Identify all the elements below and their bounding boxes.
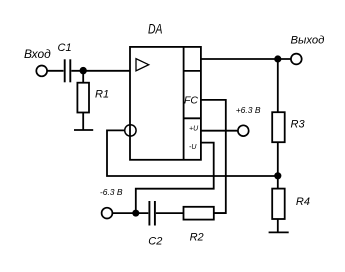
svg-text:-U: -U — [189, 144, 197, 151]
svg-text:-6.3 В: -6.3 В — [100, 187, 123, 197]
svg-text:DA: DA — [148, 21, 163, 37]
wire R2 to FC riser — [214, 212, 226, 214]
resistor R4 — [272, 189, 310, 219]
svg-text:Выход: Выход — [291, 35, 325, 47]
wire R1 to ground — [82, 113, 84, 131]
wire junction to R1 — [82, 71, 84, 83]
capacitor C1 — [58, 42, 72, 82]
op-amp amplifier triangle symbol — [136, 59, 149, 71]
wire -6.3V terminal to C2 — [112, 212, 148, 214]
resistor R1 — [77, 83, 109, 113]
terminal +6.3 В — [236, 105, 261, 136]
svg-text:R2: R2 — [190, 232, 204, 244]
op-amp DA body — [130, 47, 201, 160]
capacitor C2 — [148, 201, 162, 248]
wire feedback node A to inverting input — [107, 130, 278, 176]
wire input terminal to C1 — [47, 70, 63, 72]
svg-text:Вход: Вход — [24, 47, 51, 61]
wire node A to R4 — [277, 176, 279, 189]
ground under R1 — [74, 129, 93, 131]
svg-text:R1: R1 — [95, 89, 109, 101]
svg-text:+6.3 В: +6.3 В — [236, 105, 261, 115]
ground under R4 — [269, 231, 289, 233]
wire C2 to R2 — [156, 212, 184, 214]
wire R4 to ground — [277, 219, 279, 232]
svg-text:C1: C1 — [58, 42, 72, 54]
wire C1 to op-amp non-inverting input — [71, 70, 130, 72]
svg-text:+U: +U — [189, 125, 199, 132]
svg-text:R4: R4 — [296, 196, 310, 208]
svg-text:FC: FC — [184, 95, 198, 107]
svg-text:C2: C2 — [148, 236, 162, 248]
svg-text:R3: R3 — [291, 118, 306, 130]
node output junction — [274, 55, 281, 62]
wire R3 to node A — [277, 142, 279, 176]
wire output junction to R3 — [277, 59, 279, 112]
terminal output (Выход) — [291, 35, 325, 65]
terminal -6.3 В — [100, 187, 123, 219]
wire FC pin to R2 — [201, 100, 226, 213]
wire +U pin to +6.3V terminal — [201, 130, 238, 132]
inverting input circle on DA — [125, 125, 136, 136]
node A (R3/R4/feedback junction) — [274, 172, 281, 179]
terminal input (Вход) — [24, 47, 51, 76]
node junction -6.3V / C2 / -U — [132, 210, 139, 217]
resistor R3 — [272, 112, 305, 142]
resistor R2 — [184, 207, 214, 244]
wire -U pin to -6.3V node — [136, 143, 214, 214]
node junction C1/R1 — [80, 67, 87, 74]
wire output pin — [201, 58, 291, 60]
